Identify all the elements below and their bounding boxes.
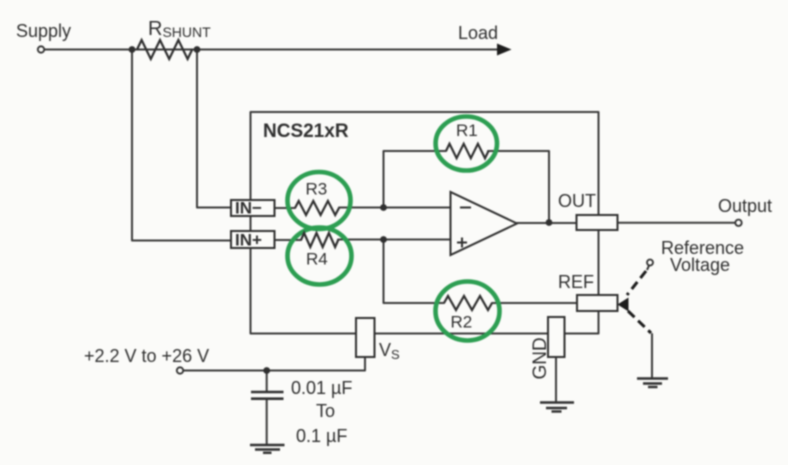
resistor R1 [436, 117, 497, 171]
node load junction [194, 46, 201, 53]
op-amp plus sign [457, 238, 467, 248]
wire vertical load-side to IN- [197, 50, 231, 208]
terminal Output [735, 220, 741, 226]
svg-text:0.01 µF: 0.01 µF [291, 378, 352, 398]
svg-text:VS: VS [379, 340, 400, 362]
wire capacitor top lead [266, 371, 268, 392]
node supply cap junction [263, 367, 270, 374]
svg-text:R3: R3 [306, 180, 328, 199]
node output junction [546, 219, 553, 226]
wire feedback left to R1 [384, 151, 447, 208]
capacitor C1 [251, 392, 284, 399]
svg-text:R2: R2 [451, 313, 473, 332]
wire R4 to op-amp plus input [338, 239, 451, 241]
wire vertical supply-side to IN+ [132, 50, 231, 241]
wire dashed ref upper [627, 271, 646, 295]
node supply junction [129, 46, 136, 53]
resistor R2 [436, 282, 500, 341]
wire R3 to op-amp minus input [339, 207, 451, 209]
wire node B to R2 [384, 240, 445, 304]
wire R2 to REF pin [492, 302, 577, 304]
svg-text:R1: R1 [456, 121, 478, 140]
svg-text:IN+: IN+ [235, 230, 262, 249]
terminal +2.2V [177, 367, 183, 373]
pin GND [530, 317, 565, 380]
pin REF [558, 272, 618, 311]
svg-text:REF: REF [558, 272, 594, 292]
svg-text:NCS21xR: NCS21xR [263, 121, 349, 142]
node op-amp plus junction [380, 236, 387, 243]
svg-text:R4: R4 [306, 250, 328, 269]
pin VS [356, 318, 400, 362]
resistor RSHUNT [137, 40, 192, 59]
svg-text:+2.2 V to +26 V: +2.2 V to +26 V [84, 346, 209, 366]
pin IN- [231, 199, 275, 218]
wire GND pin to ground [555, 357, 557, 401]
svg-text:To: To [316, 401, 335, 421]
wire R1 to output node [488, 151, 549, 223]
op-amp U1 box NCS21xR [251, 112, 599, 334]
svg-text:IN−: IN− [235, 199, 262, 218]
pin OUT [558, 191, 618, 230]
wire Vs pin to supply rail [184, 357, 366, 371]
node op-amp minus junction [380, 204, 387, 211]
svg-text:OUT: OUT [558, 191, 596, 211]
wire IN- to R3 [275, 207, 296, 209]
wire dashed ref lower [628, 311, 651, 333]
arrow into REF pin [618, 298, 629, 312]
wire op-amp output to OUT pin [517, 222, 577, 224]
resistor R3 [288, 172, 351, 229]
svg-text:Voltage: Voltage [670, 255, 730, 275]
arrow to Load [497, 44, 512, 56]
wire top supply to load [45, 49, 500, 51]
svg-text:Load: Load [458, 23, 498, 43]
svg-text:0.1 µF: 0.1 µF [296, 426, 347, 446]
svg-text:GND: GND [530, 337, 551, 379]
op-amp minus sign [460, 207, 471, 209]
ground (capacitor) [250, 445, 285, 453]
svg-text:Supply: Supply [16, 21, 71, 41]
wire capacitor bottom lead [266, 400, 268, 445]
svg-text:Output: Output [718, 196, 772, 216]
resistor R4 [288, 228, 352, 285]
wire IN+ to R4 [275, 239, 302, 241]
wire OUT pin to Output terminal [618, 222, 736, 224]
op-amp A1 triangle [451, 192, 518, 255]
svg-text:RSHUNT: RSHUNT [148, 18, 211, 40]
ground (reference) [637, 379, 668, 388]
wire ref node stem [647, 266, 649, 271]
ground (GND pin) [540, 403, 574, 412]
terminal Reference Voltage node [647, 260, 653, 266]
pin IN+ [231, 230, 275, 249]
terminal Supply [38, 46, 44, 52]
wire reference ground drop [651, 334, 653, 377]
